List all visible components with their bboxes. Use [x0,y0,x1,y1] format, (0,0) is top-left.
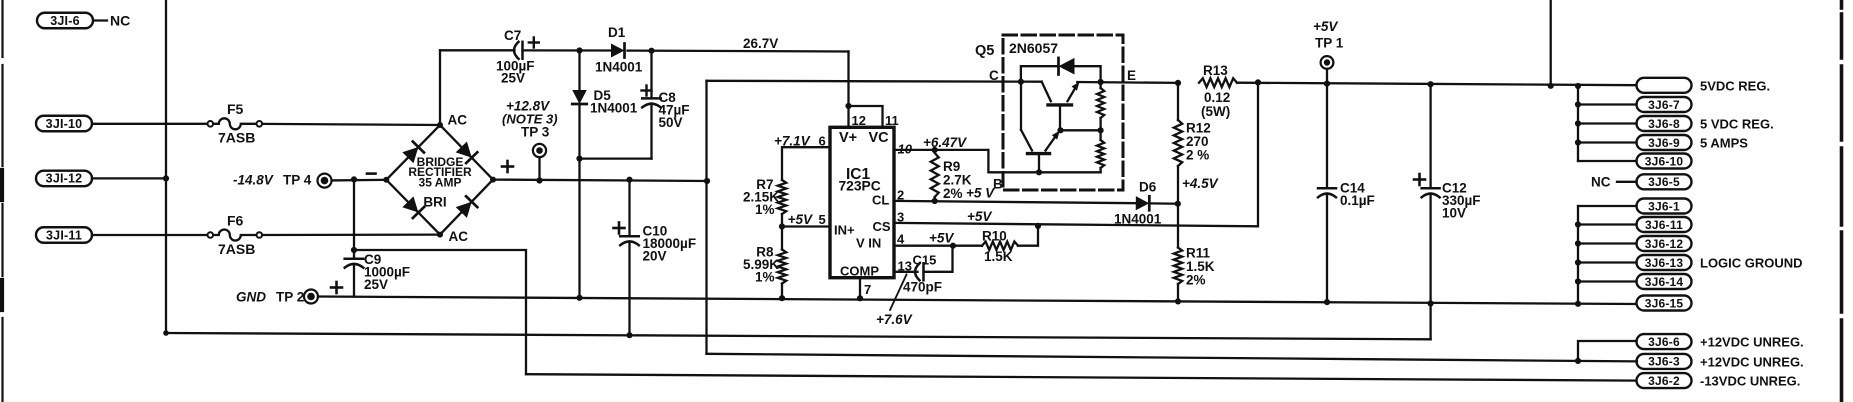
connector 3J6-2 [1637,373,1692,388]
svg-text:3JI-6: 3JI-6 [50,14,80,28]
label pin 4 [897,232,905,247]
resistor R11 [1174,204,1182,305]
connector 3J6-8 [1637,116,1692,131]
svg-text:5VDC REG.: 5VDC REG. [1700,79,1770,94]
label R13 [1203,63,1228,78]
label TP 2 [276,290,304,305]
label 5.99K (R8) [743,257,779,272]
test point TP3 [533,144,546,157]
capacitor C9 [345,259,364,268]
label C15 [913,253,937,268]
svg-text:D1: D1 [608,25,626,40]
svg-text:0.1µF: 0.1µF [1340,193,1375,208]
label 18000uF (C10) [643,236,697,251]
label +7.1V [774,134,811,149]
label 5W (R13) [1201,104,1230,119]
svg-text:470pF: 470pF [903,280,942,295]
wire F5 to bridge AC top [262,124,440,125]
label 2% (R9) [943,186,963,201]
plus sign (C12) [1414,174,1425,185]
wire 3J6-6 jog [1575,341,1637,364]
node C15 right [950,243,956,249]
label 7ASB (F5) [218,130,255,146]
pin 3 wire (IC1) [894,82,1258,226]
label +12VDC UNREG (3J6-6) [1700,335,1804,350]
label pin 12 [852,113,866,128]
wire R9 bottom [932,197,938,204]
wire R13 right to +5V rail [1237,79,1636,85]
label +6.47V [923,135,967,150]
label F6 [227,213,244,229]
label 26.7V [743,36,778,51]
label IC1 [846,166,871,183]
label pin 6 [819,134,826,149]
label +5V (pin2) [966,186,995,201]
connector 3J6-6 [1637,334,1692,349]
svg-text:+7.6V: +7.6V [876,312,913,327]
svg-text:VC: VC [869,130,890,146]
svg-text:B: B [993,177,1003,192]
fuse F5 [208,118,263,129]
pin 12 wire (IC1) [847,52,849,128]
plus sign (C9) [331,282,342,293]
svg-text:10: 10 [898,142,913,157]
label 1% (R7) [755,202,775,217]
svg-text:3: 3 [897,210,904,225]
svg-text:NC: NC [1591,175,1611,190]
svg-text:3J6-15: 3J6-15 [1645,296,1684,310]
svg-text:3JI-11: 3JI-11 [46,228,82,242]
label D1 [608,25,626,40]
wire TP1 drop [1324,69,1330,87]
label pin 7 [864,282,871,297]
svg-text:R13: R13 [1203,63,1228,78]
label C7 [504,28,521,43]
label 270 (R12) [1186,134,1209,149]
wire D6 to +4.5V node [1151,201,1181,207]
label V+ (IC1) [839,130,857,146]
wire ground vertical x166 [165,0,167,333]
wire ground rail [318,297,1636,305]
capacitor C12 [1422,84,1440,306]
wire R7 to pin5 node [779,214,785,230]
label pin 5 [819,212,826,227]
svg-text:(5W): (5W) [1201,104,1230,119]
connector 3JI-11 [36,227,92,243]
svg-text:F5: F5 [227,101,244,117]
svg-text:3J6-7: 3J6-7 [1648,98,1680,112]
wire 3J6-1 row [1578,205,1637,207]
label 7ASB (F6) [218,241,255,257]
node doubler junction [576,47,582,53]
label 100uF (C7) [496,59,535,74]
label 2% (R12) [1186,148,1209,163]
diode D6 [1136,196,1150,210]
wire R8 to ground [779,284,785,302]
op-amp IC1 box [830,127,894,277]
label D6 [1139,180,1157,195]
node Q5 collector [1018,79,1024,85]
wire 3J6-7 row [1575,101,1637,107]
label -13VDC UNREG (3J6-2) [1700,374,1800,389]
capacitor C7 [514,42,523,59]
wire +12VDC unreg line (to 3J6-3) [707,354,1638,362]
svg-text:+5V: +5V [967,209,992,224]
label NC (3JI-6) [110,13,130,29]
svg-text:+5V: +5V [929,231,954,246]
svg-text:+12VDC UNREG.: +12VDC UNREG. [1700,355,1804,370]
wire +12VDC unreg vertical [705,81,707,354]
wire -14.8V jog [354,250,526,374]
leader +7.6V to pin13 [890,275,907,311]
label 5 VDC REG. (3J6-8) [1700,117,1774,132]
label D5 [594,88,612,103]
svg-text:+4.5V: +4.5V [1182,176,1219,191]
plus sign (C10) [614,223,625,234]
svg-text:TP 1: TP 1 [1315,36,1344,51]
svg-text:+5 V: +5 V [966,186,995,201]
svg-text:3J6-3: 3J6-3 [1648,355,1680,369]
pin 11 jumper wire [849,106,883,127]
svg-text:2: 2 [897,188,904,203]
wire Q5 emitter line [1077,80,1181,86]
label 25V (C9) [364,277,388,292]
wire +12.8V rail [493,180,707,181]
wire R10 to CS [1018,223,1041,246]
label F5 [227,101,244,117]
label R11 [1186,246,1211,261]
plus sign (C7) [529,38,539,48]
label +5V (TP1) [1313,19,1338,34]
svg-text:1N4001: 1N4001 [590,101,638,116]
label C9 [364,252,381,267]
svg-text:E: E [1127,68,1136,83]
label pin 3 [897,210,904,225]
pin 7 stub [857,278,863,302]
connector 3JI-10 [36,116,92,132]
node C9 top junction [351,176,357,182]
svg-text:25V: 25V [501,71,525,86]
wire feeder group1 [1577,86,1579,161]
label pin 13 [898,259,912,274]
svg-text:1N4001: 1N4001 [595,60,643,75]
svg-text:GND: GND [236,290,266,305]
svg-text:3J6-11: 3J6-11 [1645,218,1683,232]
label LOGIC GROUND [1700,256,1803,271]
wire C7 to D1 [523,49,612,51]
wire 3JI-6 to NC [93,19,107,21]
label 1.5K (R11) [1186,259,1215,274]
wire NC to 3J6-5 [1617,181,1637,183]
pin 13 stub [894,271,918,273]
label 1N4001 (D6) [1114,212,1162,227]
node pin12 jumper [845,103,851,109]
svg-text:3J6-12: 3J6-12 [1645,237,1684,251]
wire F6 to bridge AC bottom [262,233,440,236]
transistor Q5 output [1042,82,1080,131]
diode D5 [572,51,587,159]
connector 3J6-5 [1637,174,1692,189]
label +12.8V (TP3) [506,99,550,114]
label NOTE 3 [502,112,558,127]
svg-text:2 %: 2 % [1186,148,1209,163]
label E (Q5) [1127,68,1136,83]
svg-text:20V: 20V [643,249,667,264]
svg-text:3JI-10: 3JI-10 [46,117,83,131]
capacitor C15 [915,263,924,280]
svg-text:50V: 50V [659,115,683,130]
label 2.7K (R9) [943,173,972,188]
label TP 4 [283,173,312,188]
label 1% (R8) [755,270,775,285]
label 330uF (C12) [1442,193,1481,208]
wire C9 upper [353,179,355,258]
label R7 [756,177,773,192]
svg-text:TP 3: TP 3 [521,125,550,140]
svg-text:CS: CS [873,219,891,234]
connector 3J6-15 [1637,296,1692,311]
node R9 top [932,147,938,153]
svg-text:3J6-2: 3J6-2 [1648,374,1680,388]
svg-text:5: 5 [819,212,826,227]
label plus (bridge) [502,161,513,172]
svg-text:3J6-5: 3J6-5 [1648,175,1680,189]
wire 3J6-8 row [1575,120,1637,126]
label 723PC [839,179,881,194]
svg-text:AC: AC [449,229,469,244]
bridge rectifier BR1 [383,122,496,238]
label R9 [943,159,960,174]
wire 3JI-12 to ground line [92,175,169,181]
svg-text:+6.47V: +6.47V [923,135,967,150]
wire 3JI-11 to F6 [92,234,208,236]
svg-text:+5V: +5V [1313,19,1338,34]
svg-text:35 AMP: 35 AMP [419,176,462,190]
label IN+ (IC1) [834,223,855,238]
connector 3J6-7 [1637,97,1692,112]
svg-text:3JI-12: 3JI-12 [46,172,83,186]
svg-text:1.5K: 1.5K [984,249,1013,264]
svg-text:3J6-10: 3J6-10 [1645,154,1684,168]
label BRI [423,195,446,210]
svg-text:-13VDC UNREG.: -13VDC UNREG. [1700,374,1800,389]
wire bridge AC top vertical [439,50,441,125]
plus sign (C8) [642,86,652,96]
label 2% (R11) [1186,273,1206,288]
wire D5/C8 bottom [576,156,651,162]
wire feeder group2 [1575,206,1581,307]
connector 3JI-12 [36,171,92,187]
svg-text:LOGIC GROUND: LOGIC GROUND [1700,256,1803,271]
label 2N6057 [1009,40,1058,56]
svg-text:3J6-14: 3J6-14 [1645,275,1684,289]
connector 3JI-6 [37,13,93,29]
svg-text:C15: C15 [913,253,937,268]
svg-text:11: 11 [885,113,899,128]
label 5 AMPS (3J6-9) [1700,136,1748,151]
svg-text:2%: 2% [943,186,963,201]
node C10 top [626,177,632,183]
pin 6 wire (IC1) [782,147,830,180]
pin 10 wire (IC1) [894,150,1101,172]
label 47uF (C8) [659,103,690,118]
label minus (bridge) [367,172,376,175]
label VC (IC1) [869,130,890,146]
label CL (IC1) [872,193,889,208]
connector 3J6-11 [1637,217,1692,232]
label C12 [1442,181,1467,196]
resistor R8 [778,250,786,284]
svg-text:7ASB: 7ASB [218,241,255,257]
wire 3J6-9 row [1575,139,1637,145]
connector 5VDC blank oval [1637,78,1692,93]
node +12.8V rail end [704,178,710,184]
label C (Q5) [989,68,999,83]
wire C9 lower [353,264,355,297]
node C8 top [648,48,654,54]
svg-text:0.12: 0.12 [1204,90,1230,105]
svg-text:1%: 1% [755,202,775,217]
test point TP1 [1321,56,1334,69]
svg-text:+7.1V: +7.1V [774,134,811,149]
wire 3J6-11 row [1575,221,1637,227]
node feeder1 top [1575,83,1581,89]
wire pin5 to R8 [781,227,783,250]
label COMP (IC1) [840,264,879,279]
label 0.12 (R13) [1204,90,1230,105]
svg-text:10V: 10V [1442,206,1466,221]
svg-text:NC: NC [110,13,130,29]
label TP 3 [521,125,550,140]
svg-text:723PC: 723PC [839,179,881,194]
node -14.8V jog [351,247,357,253]
label BRIDGE [417,155,464,169]
svg-text:TP 2: TP 2 [276,290,304,305]
label V IN (IC1) [856,236,881,251]
wire bus -13VDC unreg (to 3J6-2) [526,374,1636,380]
svg-text:5 AMPS: 5 AMPS [1700,136,1748,151]
pin 2 wire (IC1) [894,201,1136,203]
test point TP4 [318,174,332,188]
svg-text:CL: CL [872,193,889,208]
wire 3J6-10 row [1578,160,1637,162]
label R10 [982,229,1007,244]
label 1N4001 (D1) [595,60,643,75]
svg-text:V+: V+ [839,130,857,146]
svg-text:13: 13 [898,259,912,274]
label 35 AMP [419,176,462,190]
label R12 [1186,121,1211,136]
label CS (IC1) [873,219,891,234]
label NC (3J6-5) [1591,175,1611,190]
wire 3J6-14 row [1575,278,1637,284]
capacitor C8 [642,51,661,159]
label C14 [1340,181,1365,196]
label +5V (pin4) [929,231,954,246]
pin 5 wire (IC1) [782,225,830,227]
connector 3J6-3 [1637,354,1692,369]
svg-text:7ASB: 7ASB [218,130,255,146]
label 0.1uF (C14) [1340,193,1375,208]
diode D1 [611,43,625,57]
label 25V (C7) [501,71,525,86]
label AC top [448,113,468,128]
label 470pF (C15) [903,280,942,295]
wire D1 to 26.7V rail [628,49,849,52]
label 10V (C12) [1442,206,1466,221]
wire bus A jog to ground rail [1429,303,1431,339]
label GND (TP2) [236,290,266,305]
svg-text:C: C [989,68,999,83]
svg-text:2N6057: 2N6057 [1009,40,1058,56]
capacitor C14 [1318,84,1336,306]
resistor R12 [1174,83,1182,204]
label +4.5V [1182,176,1219,191]
wire TP4 to bridge minus [332,179,387,182]
svg-text:F6: F6 [227,213,244,229]
svg-text:1%: 1% [755,270,775,285]
label 1000uF (C9) [364,265,410,280]
label pin 2 [897,188,904,203]
transistor Q5 driver [1021,82,1060,176]
transistor Q5 box [1003,35,1123,190]
wire AC top to C7 [440,49,515,51]
svg-text:Q5: Q5 [975,43,994,59]
svg-text:-14.8V: -14.8V [233,173,274,188]
svg-text:5 VDC REG.: 5 VDC REG. [1700,117,1774,132]
label AC bottom [449,229,469,244]
svg-text:C7: C7 [504,28,521,43]
wire C8 net to ground [576,159,582,301]
svg-text:+5V: +5V [788,212,813,227]
label 1.5K (R10) [984,249,1013,264]
svg-text:COMP: COMP [840,264,879,279]
node Q5 interbase [1057,127,1103,133]
svg-text:3J6-8: 3J6-8 [1648,117,1680,131]
svg-text:7: 7 [864,282,871,297]
svg-text:BRI: BRI [423,195,446,210]
connector 3J6-10 [1637,154,1692,169]
label C10 [643,224,668,239]
label +7.6V [876,312,913,327]
svg-text:6: 6 [819,134,826,149]
label 2.15K (R7) [743,190,779,205]
wire TP3 drop [536,157,542,183]
svg-text:D6: D6 [1139,180,1157,195]
svg-text:2%: 2% [1186,273,1206,288]
connector 3J6-1 [1637,199,1692,214]
svg-text:3J6-13: 3J6-13 [1645,256,1684,270]
label pin 11 [885,113,899,128]
fuse F6 [208,230,263,241]
label 1N4001 (D5) [590,101,638,116]
label TP 1 [1315,36,1344,51]
connector 3J6-13 [1637,255,1692,270]
resistor R13 [1199,78,1237,87]
wire C15 to pin4 net [924,246,953,272]
resistor R10 [982,242,1018,250]
svg-text:+12VDC UNREG.: +12VDC UNREG. [1700,335,1804,350]
svg-text:AC: AC [448,113,468,128]
label -14.8V (TP4) [233,173,274,188]
svg-text:V IN: V IN [856,236,881,251]
resistor Q5 internal upper [1097,82,1104,130]
wire collector line [707,80,1042,83]
wire 3J6-12 row [1575,240,1637,246]
wire ground bus A [163,330,1430,339]
connector 3J6-9 [1637,135,1692,150]
node C12 top [1428,81,1434,87]
